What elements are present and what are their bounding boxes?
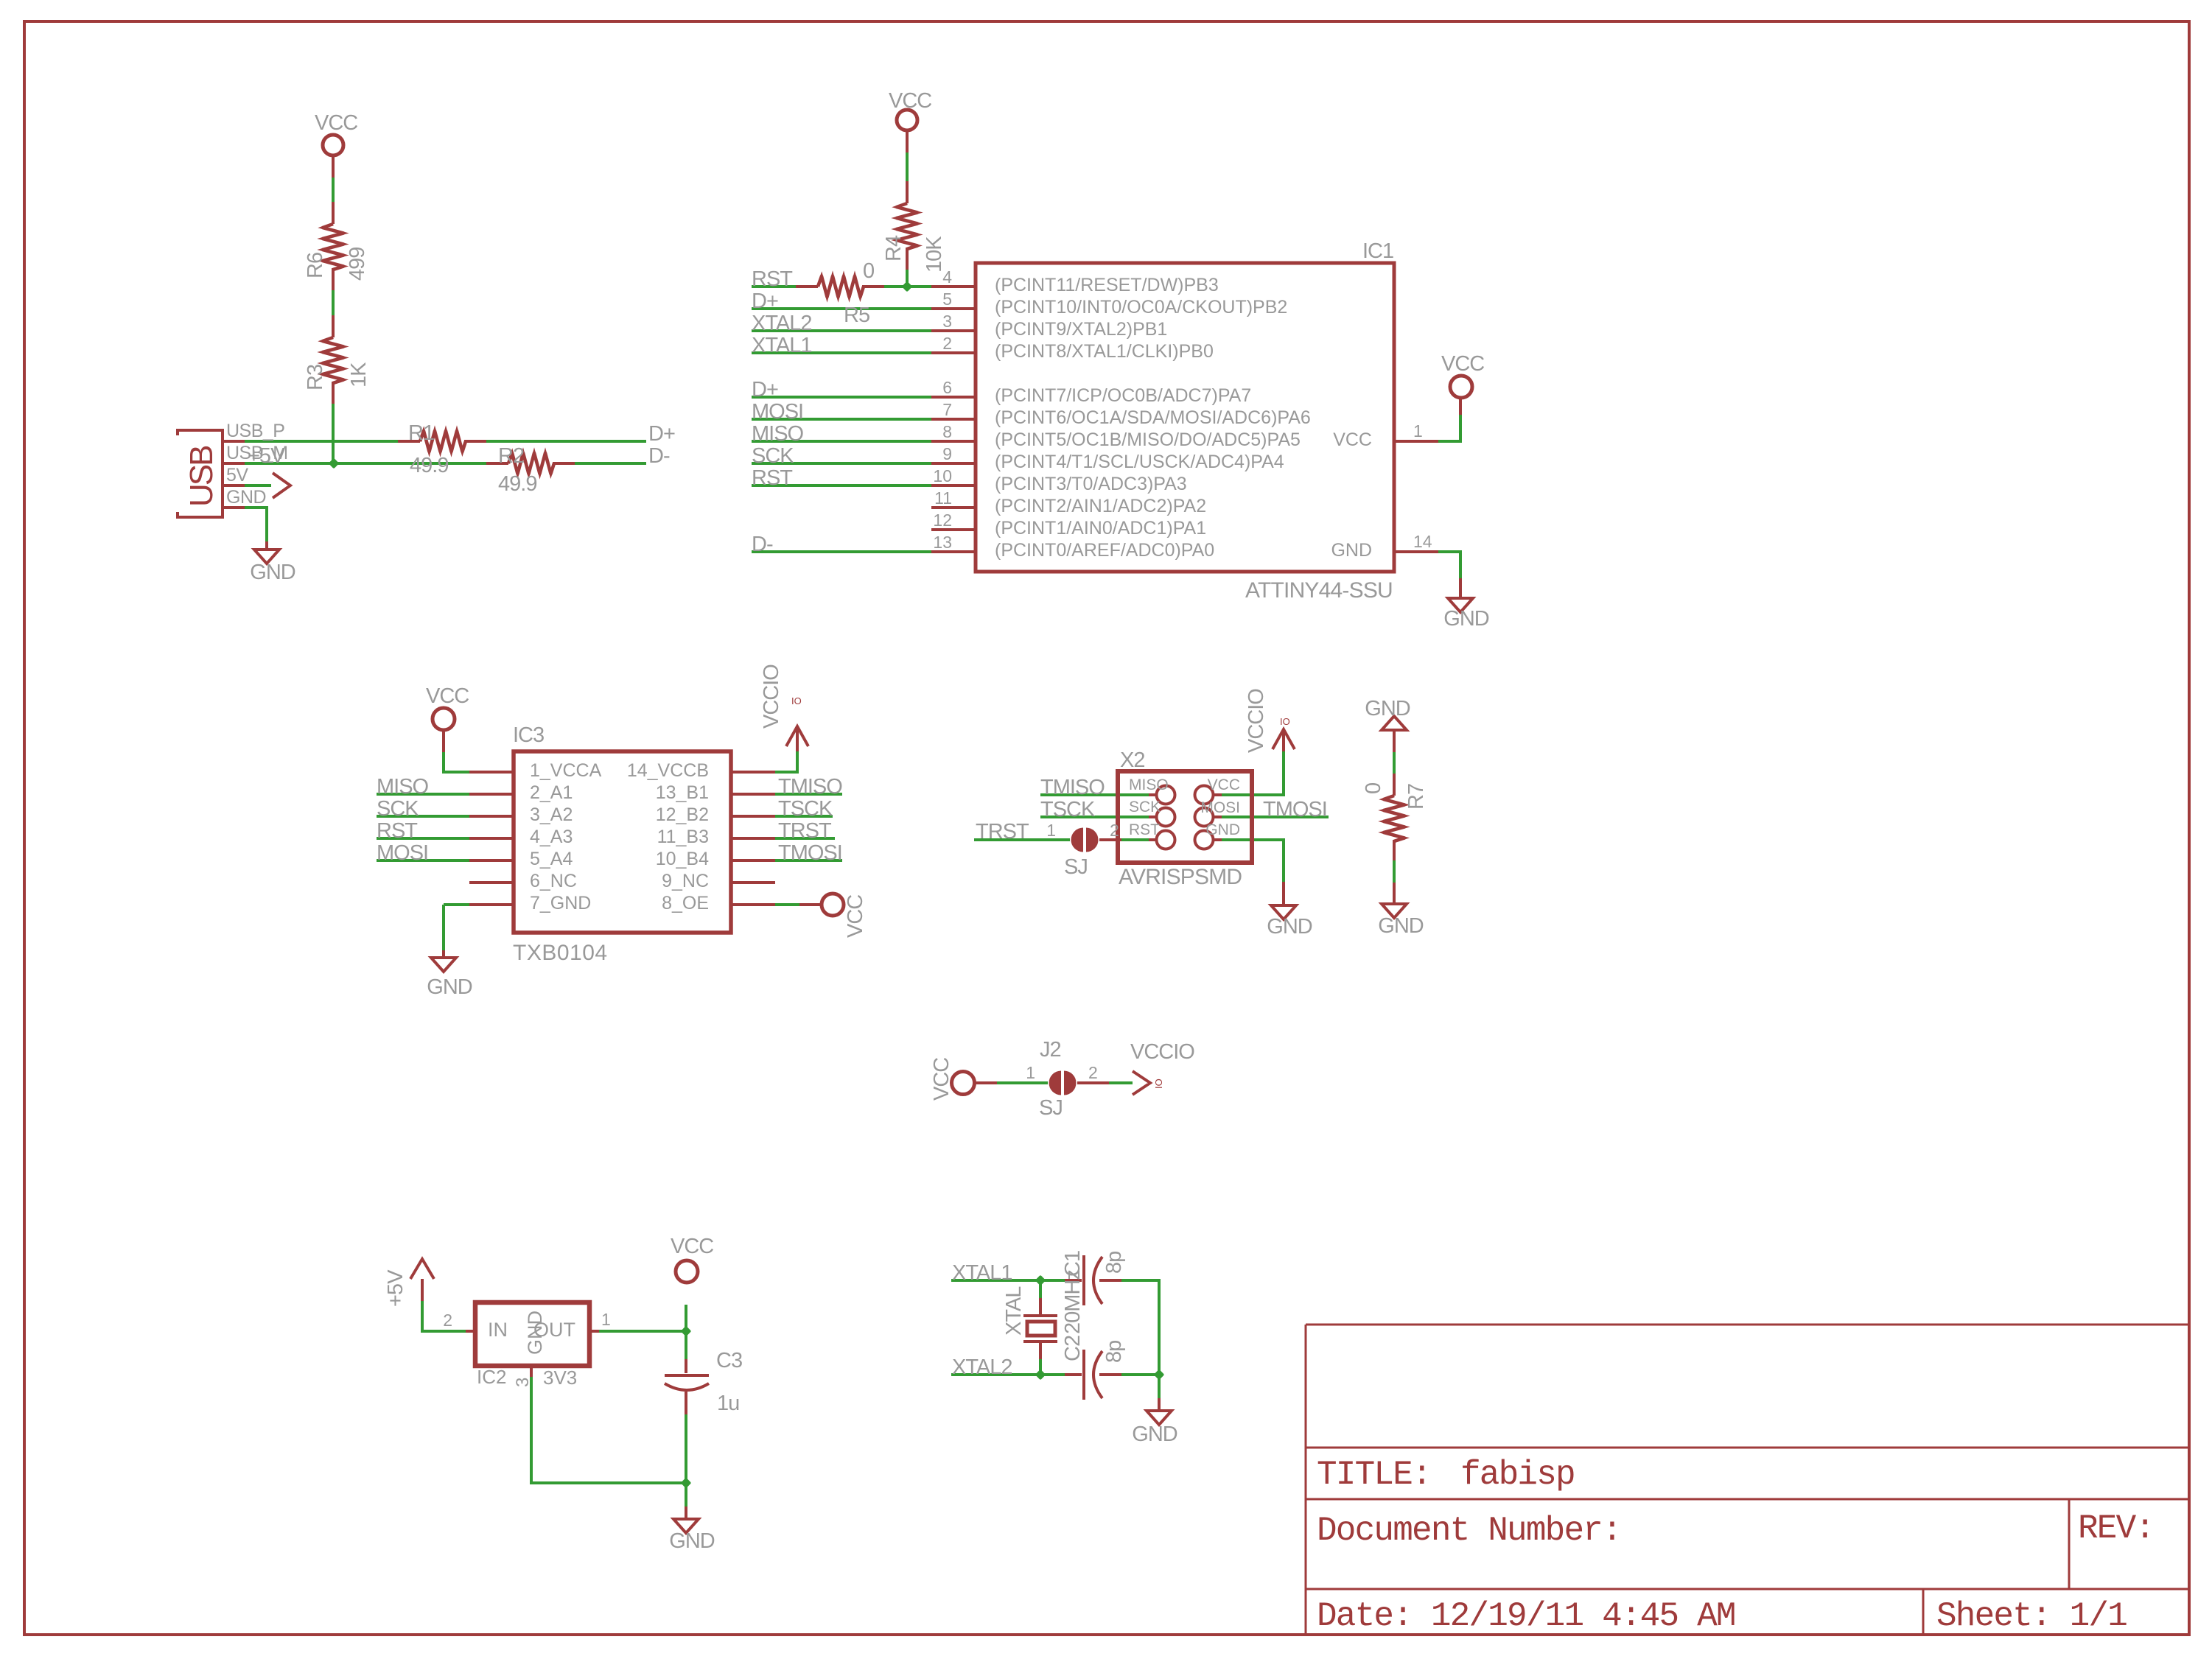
svg-text:GND: GND [1378, 914, 1424, 938]
svg-text:+5V: +5V [384, 1269, 407, 1307]
svg-text:VCC: VCC [315, 111, 357, 135]
svg-text:ATTINY44-SSU: ATTINY44-SSU [1245, 578, 1393, 603]
svg-text:(PCINT8/XTAL1/CLKI)PB0: (PCINT8/XTAL1/CLKI)PB0 [995, 341, 1214, 362]
svg-text:RST: RST [377, 819, 418, 843]
svg-text:D+: D+ [648, 422, 675, 446]
svg-text:4_A3: 4_A3 [530, 827, 573, 847]
svg-text:VCC: VCC [1333, 429, 1372, 450]
svg-text:VCC: VCC [844, 895, 867, 938]
svg-text:7: 7 [942, 400, 952, 419]
svg-text:49.9: 49.9 [498, 472, 536, 496]
svg-text:7_GND: 7_GND [530, 893, 591, 913]
svg-text:IO: IO [1153, 1078, 1164, 1089]
svg-text:1: 1 [601, 1310, 611, 1329]
svg-text:SCK: SCK [752, 444, 794, 468]
svg-text:MISO: MISO [1129, 776, 1169, 793]
svg-text:VCC: VCC [671, 1235, 713, 1258]
svg-text:R4: R4 [882, 235, 906, 262]
svg-text:USB: USB [183, 446, 220, 507]
svg-text:(PCINT3/T0/ADC3)PA3: (PCINT3/T0/ADC3)PA3 [995, 474, 1187, 494]
svg-text:MOSI: MOSI [1200, 799, 1240, 816]
svg-text:3: 3 [513, 1378, 533, 1387]
svg-text:R6: R6 [304, 253, 327, 278]
svg-text:TXB0104: TXB0104 [513, 941, 608, 965]
svg-text:3_A2: 3_A2 [530, 804, 573, 825]
svg-text:14: 14 [1413, 532, 1432, 551]
svg-text:3: 3 [942, 312, 952, 331]
svg-text:Document Number:: Document Number: [1317, 1512, 1621, 1550]
svg-text:(PCINT10/INT0/OC0A/CKOUT)PB2: (PCINT10/INT0/OC0A/CKOUT)PB2 [995, 297, 1287, 318]
svg-text:8p: 8p [1102, 1341, 1126, 1363]
svg-text:XTAL2: XTAL2 [752, 312, 812, 335]
svg-text:VCC: VCC [426, 684, 469, 708]
svg-text:R3: R3 [304, 365, 327, 390]
svg-text:IN: IN [488, 1319, 508, 1341]
svg-text:VCCIO: VCCIO [1245, 689, 1268, 753]
svg-text:(PCINT7/ICP/OC0B/ADC7)PA7: (PCINT7/ICP/OC0B/ADC7)PA7 [995, 385, 1251, 406]
svg-text:GND: GND [427, 975, 472, 999]
svg-text:6: 6 [942, 378, 952, 397]
svg-text:D-: D- [752, 533, 773, 556]
svg-text:(PCINT1/AIN0/ADC1)PA1: (PCINT1/AIN0/ADC1)PA1 [995, 518, 1206, 539]
svg-text:VCC: VCC [930, 1058, 953, 1101]
svg-text:6_NC: 6_NC [530, 871, 577, 891]
svg-text:14_VCCB: 14_VCCB [627, 760, 709, 781]
svg-text:GND: GND [524, 1311, 546, 1355]
svg-text:MOSI: MOSI [377, 841, 428, 865]
svg-text:GND: GND [1443, 607, 1489, 631]
svg-text:VCCIO: VCCIO [760, 664, 783, 729]
svg-text:D+: D+ [752, 290, 778, 313]
svg-text:TSCK: TSCK [1040, 798, 1096, 821]
svg-text:XTAL2: XTAL2 [952, 1355, 1012, 1379]
svg-text:fabisp: fabisp [1460, 1456, 1575, 1494]
svg-text:XTAL1: XTAL1 [952, 1261, 1012, 1285]
svg-text:3V3: 3V3 [543, 1367, 577, 1389]
svg-text:XTAL1: XTAL1 [752, 334, 812, 357]
svg-text:1K: 1K [347, 362, 371, 387]
svg-text:XTAL: XTAL [1002, 1286, 1026, 1336]
svg-text:1: 1 [1413, 421, 1423, 441]
svg-text:12: 12 [933, 511, 952, 530]
svg-text:GND: GND [250, 561, 295, 584]
svg-text:RST: RST [1129, 821, 1160, 838]
svg-text:RST: RST [752, 466, 793, 490]
svg-text:TMOSI: TMOSI [1263, 798, 1327, 821]
svg-text:13: 13 [933, 533, 952, 552]
svg-text:TRST: TRST [976, 820, 1029, 843]
svg-text:GND: GND [669, 1529, 715, 1553]
svg-text:TRST: TRST [778, 819, 832, 843]
svg-text:1u: 1u [717, 1392, 739, 1415]
svg-text:C3: C3 [716, 1349, 742, 1372]
svg-text:MOSI: MOSI [752, 400, 803, 424]
svg-text:TMOSI: TMOSI [778, 841, 842, 865]
svg-text:(PCINT5/OC1B/MISO/DO/ADC5)PA5: (PCINT5/OC1B/MISO/DO/ADC5)PA5 [995, 429, 1301, 450]
svg-text:(PCINT4/T1/SCL/USCK/ADC4)PA4: (PCINT4/T1/SCL/USCK/ADC4)PA4 [995, 452, 1284, 472]
svg-text:(PCINT9/XTAL2)PB1: (PCINT9/XTAL2)PB1 [995, 319, 1167, 340]
svg-text:(PCINT0/AREF/ADC0)PA0: (PCINT0/AREF/ADC0)PA0 [995, 540, 1214, 561]
svg-text:GND: GND [1267, 915, 1312, 939]
svg-text:R5: R5 [844, 304, 869, 327]
svg-text:GND: GND [1365, 697, 1410, 720]
svg-text:R1: R1 [408, 421, 434, 445]
svg-text:GND: GND [226, 487, 266, 508]
svg-text:2: 2 [443, 1311, 452, 1330]
svg-text:C2: C2 [1061, 1336, 1085, 1361]
svg-text:R2: R2 [498, 444, 524, 468]
svg-text:USB_P: USB_P [226, 421, 284, 441]
svg-text:J2: J2 [1040, 1038, 1061, 1062]
svg-text:REV:: REV: [2078, 1509, 2154, 1548]
svg-text:2: 2 [942, 334, 952, 353]
svg-text:5_A4: 5_A4 [530, 849, 573, 869]
svg-text:GND: GND [1132, 1423, 1177, 1446]
svg-text:D+: D+ [752, 378, 778, 401]
svg-text:4: 4 [942, 267, 952, 287]
svg-text:VCC: VCC [1441, 352, 1484, 376]
svg-text:2_A1: 2_A1 [530, 782, 573, 803]
svg-text:TMISO: TMISO [1040, 776, 1105, 799]
svg-text:10_B4: 10_B4 [656, 849, 709, 869]
svg-text:X2: X2 [1120, 748, 1144, 772]
svg-text:IO: IO [1280, 716, 1290, 727]
svg-text:AVRISPSMD: AVRISPSMD [1119, 865, 1242, 889]
svg-text:+5V: +5V [248, 444, 285, 468]
svg-text:R7: R7 [1404, 784, 1428, 810]
svg-text:2: 2 [1110, 821, 1119, 840]
svg-text:9_NC: 9_NC [662, 871, 709, 891]
svg-text:MISO: MISO [377, 775, 429, 799]
svg-text:12_B2: 12_B2 [656, 804, 709, 825]
svg-text:TMISO: TMISO [778, 775, 842, 799]
svg-text:Sheet: 1/1: Sheet: 1/1 [1936, 1597, 2127, 1635]
svg-text:(PCINT6/OC1A/SDA/MOSI/ADC6)PA6: (PCINT6/OC1A/SDA/MOSI/ADC6)PA6 [995, 407, 1311, 428]
svg-text:VCCIO: VCCIO [1130, 1040, 1194, 1064]
svg-text:8p: 8p [1102, 1252, 1126, 1274]
svg-text:IC1: IC1 [1362, 239, 1393, 263]
svg-text:5: 5 [942, 290, 952, 309]
svg-text:49.9: 49.9 [410, 454, 448, 477]
svg-text:VCC: VCC [889, 89, 931, 113]
svg-text:TSCK: TSCK [778, 797, 833, 821]
svg-text:GND: GND [1331, 540, 1372, 561]
svg-text:IC2: IC2 [477, 1366, 506, 1388]
svg-text:499: 499 [346, 248, 369, 281]
svg-text:RST: RST [752, 267, 793, 291]
svg-text:0: 0 [863, 259, 874, 283]
svg-text:11: 11 [934, 488, 952, 508]
svg-text:IO: IO [791, 695, 802, 706]
svg-text:9: 9 [942, 444, 952, 463]
svg-text:5V: 5V [226, 465, 248, 485]
svg-text:0: 0 [1362, 783, 1385, 794]
svg-text:D-: D- [648, 444, 670, 468]
svg-text:1_VCCA: 1_VCCA [530, 760, 602, 781]
svg-text:8_OE: 8_OE [662, 893, 709, 913]
svg-text:20MHz: 20MHz [1061, 1270, 1085, 1334]
svg-text:10: 10 [933, 466, 952, 485]
svg-text:SCK: SCK [377, 797, 419, 821]
svg-text:8: 8 [942, 422, 952, 441]
svg-text:(PCINT2/AIN1/ADC2)PA2: (PCINT2/AIN1/ADC2)PA2 [995, 496, 1206, 516]
svg-text:1: 1 [1046, 821, 1056, 840]
svg-text:(PCINT11/RESET/DW)PB3: (PCINT11/RESET/DW)PB3 [995, 275, 1219, 295]
svg-text:MISO: MISO [752, 422, 804, 446]
svg-text:TITLE:: TITLE: [1317, 1456, 1431, 1494]
svg-text:Date: 12/19/11 4:45 AM: Date: 12/19/11 4:45 AM [1317, 1597, 1735, 1635]
svg-text:11_B3: 11_B3 [657, 827, 709, 847]
svg-text:SJ: SJ [1039, 1096, 1063, 1120]
svg-text:1: 1 [1026, 1063, 1035, 1082]
svg-text:GND: GND [1205, 821, 1240, 838]
svg-text:13_B1: 13_B1 [656, 782, 709, 803]
svg-text:SJ: SJ [1064, 855, 1088, 879]
svg-text:IC3: IC3 [513, 723, 544, 747]
svg-text:VCC: VCC [1208, 776, 1240, 793]
svg-text:SCK: SCK [1129, 799, 1161, 816]
svg-text:2: 2 [1088, 1063, 1098, 1082]
